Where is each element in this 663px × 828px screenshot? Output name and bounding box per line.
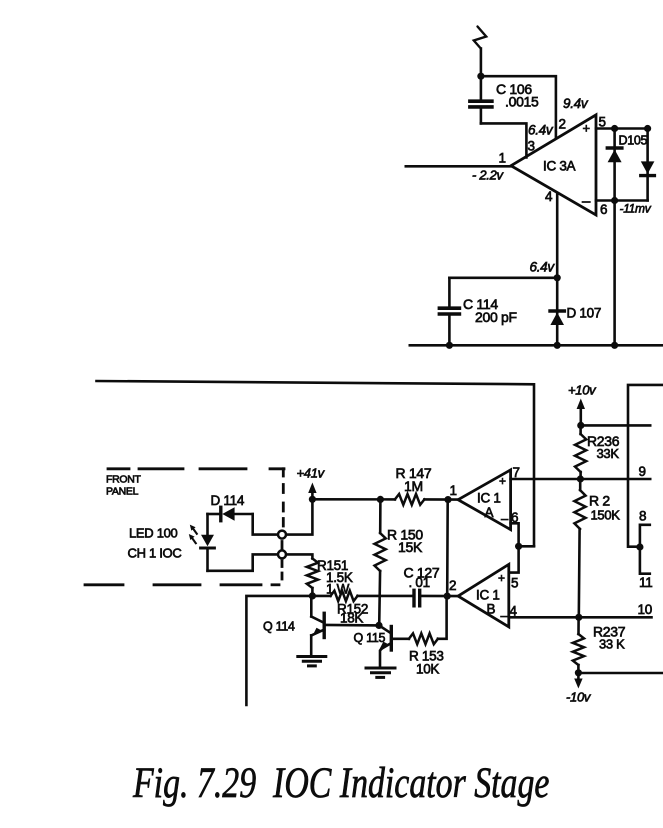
resistor R237 [573,617,584,673]
terminal circle bottom [278,550,286,558]
node D105 top [611,125,618,132]
wire +41v to R147 [312,498,395,501]
svg-text:+10v: +10v [568,383,597,398]
svg-text:6.4v: 6.4v [528,123,554,138]
wire feedback corner to node [519,545,534,548]
node R2 pin4 line [575,614,582,621]
wire D106 rail down [613,201,616,346]
node IC1B input [444,593,451,600]
node C114 bottom [446,342,453,349]
svg-text:+41v: +41v [297,466,326,481]
svg-text:33 K: 33 K [599,637,625,652]
svg-text:33K: 33K [597,446,620,461]
svg-text:- 2.2v: - 2.2v [472,168,505,183]
capacitor C106 [470,76,492,123]
terminal circle top [278,531,286,539]
svg-text:6: 6 [600,202,607,217]
node D107 bottom [554,342,561,349]
capacitor C114 [439,278,459,346]
svg-text:1: 1 [450,483,457,498]
svg-text:–: – [501,608,509,623]
svg-text:-10v: -10v [566,690,592,705]
wire junction to IC1B pin 5 [509,546,519,572]
svg-text:1: 1 [499,151,506,166]
svg-text:6.4v: 6.4v [530,260,556,275]
wire bottom terminal to R151 [286,554,312,558]
LED emission arrows [189,525,197,544]
svg-text:18K: 18K [340,611,363,626]
transistor Q115 [379,625,409,666]
wire pin 6 [596,199,648,202]
node D105 bottom [611,197,618,204]
node +10v rail [577,422,584,429]
off-page break symbol at top of C106 branch [474,27,486,49]
svg-text:D 107: D 107 [567,306,602,321]
wire pin 4 to pin 10 [509,616,652,619]
supply arrow -10v [574,673,582,689]
svg-text:+: + [499,474,506,488]
wire node to pin2 corner [481,76,556,137]
svg-text:R 2: R 2 [589,493,610,509]
wire Q114 base [326,624,379,627]
node right diode top [644,125,651,132]
node base junction [375,622,382,629]
resistor R151 [307,559,318,596]
LED 100 [201,535,215,571]
diode D106 [641,129,655,201]
wire break-to-node [480,49,483,77]
ground Q115 [366,668,395,677]
svg-text:IC 3A: IC 3A [543,159,576,174]
svg-text:Q 115: Q 115 [354,631,386,645]
svg-text:150K: 150K [591,508,621,523]
svg-text:+: + [498,571,505,585]
node +41v [309,496,316,503]
svg-text:FRONT: FRONT [106,474,142,486]
diode D105 [607,129,622,201]
svg-text:5: 5 [511,576,518,591]
node 6.4v [554,274,561,281]
svg-text:2: 2 [559,117,566,132]
svg-text:-11mv: -11mv [620,202,652,216]
wire -10v rail [578,672,663,675]
comparator IC1 A [458,470,511,530]
svg-text:–: – [501,511,509,526]
wire +10v rail [581,424,650,427]
svg-text:. 01: . 01 [409,575,430,590]
svg-text:4: 4 [510,604,518,619]
comparator IC1 B [458,564,509,627]
resistor R236 [575,425,586,479]
supply arrow +10v [577,399,585,426]
svg-text:6: 6 [511,510,518,525]
wire pin 4 down [556,194,559,278]
wire pin 11 stub [640,547,650,574]
wire R152 to C127 [358,595,415,598]
node rail junction [611,342,618,349]
node R151 bottom / Q114 collector [309,592,316,599]
node R150 top [377,496,384,503]
svg-text:8: 8 [639,509,646,524]
svg-text:LED 100: LED 100 [129,526,178,541]
wire right box corner [628,385,663,547]
resistor R153 [409,596,447,644]
node R236-R2 [577,475,584,482]
svg-text:9: 9 [639,464,646,479]
wire input to pin 1 [406,165,511,168]
diode D107 [550,278,564,346]
wire D114 anode to top terminal [253,514,278,535]
diode D114 [208,507,253,521]
node R237 bottom [575,669,582,676]
svg-text:Q 114: Q 114 [263,620,295,634]
caption Fig. 7.29 IOC Indicator Stage [133,759,549,808]
wire top terminal to +41v rail [286,499,312,534]
wire ground rail upper section [410,344,663,347]
svg-text:11: 11 [639,575,652,590]
svg-text:1 W: 1 W [326,582,350,597]
front panel dashed outline [85,469,284,585]
op-amp IC 3A [511,115,596,215]
wire IC1A input down to IC1B input [446,500,449,596]
wire long feedback line top of lower section [97,381,535,546]
resistor R152 [331,591,358,601]
svg-text:9.4v: 9.4v [563,96,589,111]
capacitor C127 [414,590,420,606]
svg-text:2: 2 [449,578,456,593]
svg-text:10: 10 [638,602,652,617]
svg-text:15K: 15K [398,539,423,555]
wire IC1A pin 6 to junction [511,523,519,546]
wire C127 to IC1B pin 2 [420,595,458,598]
node feedback junction [515,543,522,550]
node at C106 top [477,73,484,80]
svg-text:4: 4 [545,189,553,204]
svg-text:IC 1: IC 1 [476,588,500,603]
wire LED to bottom terminal [208,554,278,570]
svg-text:+: + [583,121,590,136]
resistor R150 [375,499,386,625]
svg-text:.0015: .0015 [505,94,539,110]
svg-text:B: B [487,602,496,617]
svg-text:7: 7 [513,465,520,480]
svg-text:D105: D105 [619,134,648,148]
svg-text:A: A [485,505,494,520]
supply arrow +41v [308,483,316,500]
wire pin 7 to pin 9 [511,478,651,481]
transistor Q114 [311,596,324,656]
svg-text:D 114: D 114 [211,493,245,508]
node IC1A input [444,496,451,503]
resistor R147 [395,494,458,505]
wire D114 cathode down to LED [206,514,209,536]
svg-text:PANEL: PANEL [106,486,139,498]
svg-text:200 pF: 200 pF [475,309,517,325]
node pins 8-11 junction [636,543,643,550]
ground Q114 [298,657,326,666]
svg-text:IC 1: IC 1 [477,491,501,506]
wire C106 bottom to pin 3 [481,123,527,157]
svg-text:CH 1 IOC: CH 1 IOC [128,546,182,561]
svg-text:–: – [582,193,591,210]
wire 6.4v node to C114 [449,276,557,279]
wire pin 5 output [596,127,648,130]
resistor R2 [574,479,585,617]
wire main base line left corner [246,596,330,705]
wire pin 8 stub [640,525,650,547]
svg-text:1M: 1M [404,478,423,494]
svg-text:10K: 10K [416,662,439,677]
